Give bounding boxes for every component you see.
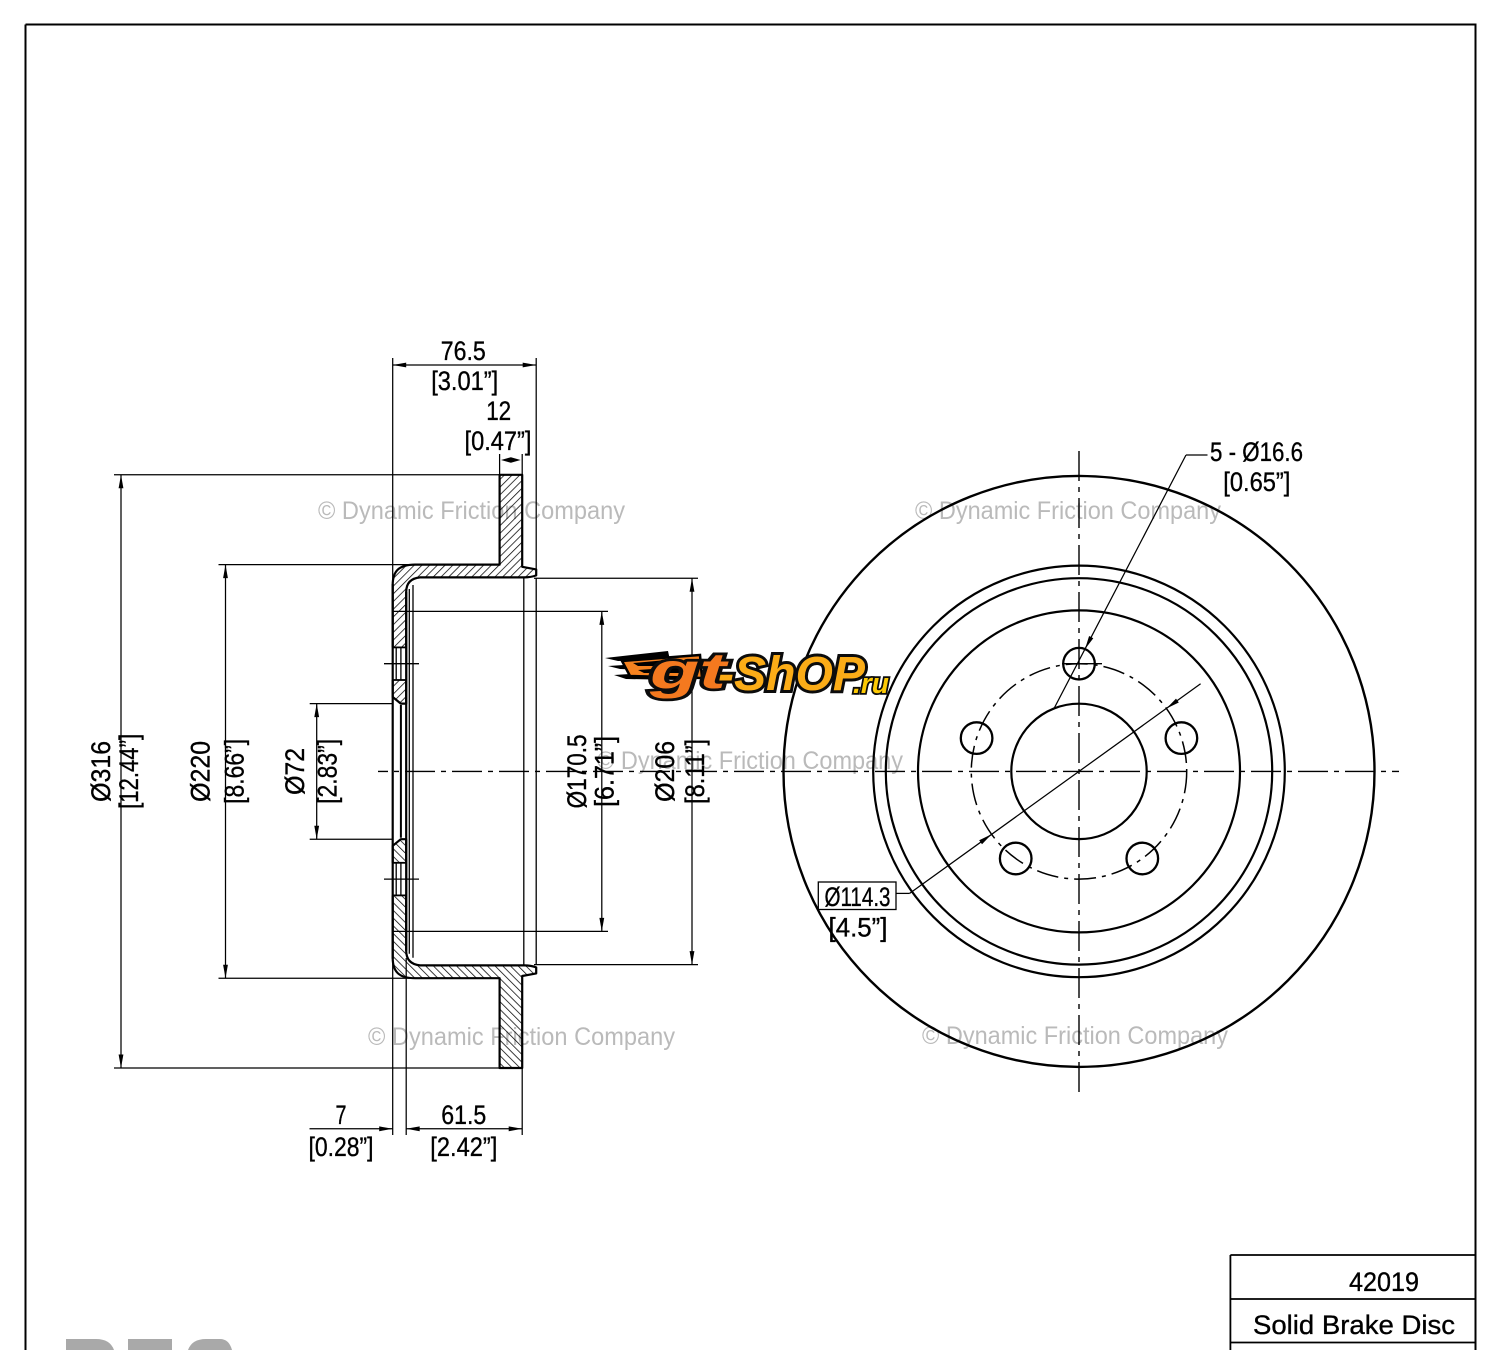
svg-text:-ShOP: -ShOP — [718, 648, 866, 701]
svg-text:© Dynamic Friction Company: © Dynamic Friction Company — [318, 497, 625, 525]
dimension 7 — [392, 958, 394, 1135]
svg-text:Ø206: Ø206 — [650, 741, 680, 802]
front view circles — [784, 476, 1375, 1067]
bolt hole center ticks — [384, 663, 419, 665]
svg-text:[3.01”]: [3.01”] — [431, 366, 498, 396]
dimension Ø170.5 — [393, 610, 608, 612]
dimension 12 — [499, 454, 501, 475]
svg-text:[0.65”]: [0.65”] — [1223, 467, 1290, 497]
svg-text:[2.42”]: [2.42”] — [430, 1132, 497, 1162]
hub silhouette lines right of ring — [523, 578, 525, 965]
fillet silhouette lines — [408, 589, 410, 954]
svg-text:76.5: 76.5 — [441, 336, 486, 366]
svg-text:[0.47”]: [0.47”] — [465, 426, 532, 456]
disc cross-section lower half (hatched, mirrored) — [392, 839, 537, 1068]
gt-shop.ru logo — [605, 643, 889, 701]
svg-text:[0.28”]: [0.28”] — [309, 1132, 374, 1162]
svg-text:Ø220: Ø220 — [186, 741, 216, 802]
speed lines — [605, 651, 670, 661]
svg-text:[2.83”]: [2.83”] — [313, 739, 343, 804]
bore chamfer silhouette — [400, 705, 402, 838]
dimension Ø220 — [219, 564, 415, 566]
dimension Ø114.3 leader — [910, 684, 1201, 894]
svg-text:[6.71”]: [6.71”] — [590, 736, 620, 807]
centerline — [378, 770, 1399, 772]
svg-text:[8.66”]: [8.66”] — [220, 739, 250, 804]
svg-text:Ø316: Ø316 — [86, 741, 116, 802]
dimension Ø72 — [310, 703, 393, 705]
svg-text:42019: 42019 — [1349, 1267, 1419, 1297]
label Ø114.3 — [818, 882, 896, 910]
dimension 61.5 — [521, 1067, 523, 1135]
title block — [1230, 1254, 1475, 1256]
leader 5-Ø16.6 — [1186, 454, 1208, 456]
bolt circle Ø114.3 (dash-dot) — [971, 664, 1186, 879]
svg-text:Ø170.5: Ø170.5 — [562, 734, 592, 808]
top hole tick — [1062, 663, 1102, 665]
DFC logo (partial) — [66, 1339, 114, 1350]
svg-text:[8.11”]: [8.11”] — [680, 739, 710, 804]
center bore Ø72 — [1011, 704, 1146, 839]
flange face silhouettes through bore — [392, 584, 394, 959]
svg-text:Ø114.3: Ø114.3 — [825, 882, 891, 912]
svg-text:Ø72: Ø72 — [280, 748, 310, 795]
svg-text:[4.5”]: [4.5”] — [829, 913, 888, 943]
dimension Ø316 — [114, 474, 500, 476]
svg-text:Solid Brake Disc: Solid Brake Disc — [1253, 1310, 1455, 1340]
svg-text:12: 12 — [486, 396, 511, 426]
svg-text:.ru: .ru — [853, 668, 889, 700]
svg-text:[12.44”]: [12.44”] — [114, 734, 144, 809]
svg-text:7: 7 — [336, 1100, 347, 1130]
disc cross-section upper half (hatched) — [392, 475, 537, 704]
bolt holes 5x Ø16.6 — [1063, 648, 1095, 680]
svg-text:61.5: 61.5 — [441, 1100, 486, 1130]
dimension 76.5 — [392, 358, 394, 583]
dimension Ø206 — [534, 577, 698, 579]
svg-text:5 - Ø16.6: 5 - Ø16.6 — [1210, 437, 1303, 467]
front view centerlines — [1078, 451, 1080, 1094]
